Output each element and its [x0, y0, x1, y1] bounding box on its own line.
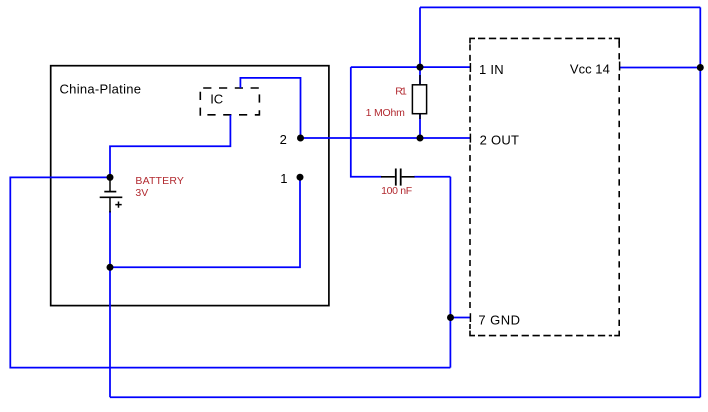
China-Platine module box — [51, 66, 329, 306]
svg-text:3V: 3V — [135, 187, 148, 199]
wire top rail — [420, 6, 700, 8]
node A R1 top junction — [417, 64, 424, 71]
svg-text:2: 2 — [280, 132, 287, 147]
svg-text:1 IN: 1 IN — [479, 62, 504, 77]
node 1 junction — [297, 174, 304, 181]
wire node A left and down to capacitor — [351, 67, 382, 177]
node R1 bottom junction — [417, 135, 424, 142]
svg-text:7 GND: 7 GND — [478, 313, 520, 328]
capacitor C1 — [381, 169, 415, 186]
wire capacitor right to GND column — [414, 176, 450, 178]
wire bottom rail — [110, 396, 700, 398]
pin tick 1 IN — [469, 63, 471, 72]
wire top rail drop to node A — [419, 7, 421, 67]
svg-text:IC: IC — [210, 91, 223, 106]
wire IC top to node 2 — [240, 78, 300, 138]
wire GND column down — [449, 177, 451, 368]
IC U2 (dashed box inside module) — [200, 88, 259, 116]
pin tick Vcc 14 — [619, 62, 621, 71]
wire right rail down — [699, 7, 701, 397]
wire branch to pin 1 — [110, 177, 300, 267]
wire battery plus down — [109, 211, 111, 397]
svg-text:100 nF: 100 nF — [381, 185, 412, 197]
svg-text:BATTERY: BATTERY — [135, 175, 184, 187]
node GND junction — [447, 314, 454, 321]
node Vcc right junction — [697, 64, 704, 71]
node 2 junction — [297, 135, 304, 142]
wire node 2 to 2 OUT — [301, 137, 471, 139]
node battery top junction — [107, 174, 114, 181]
svg-text:China-Platine: China-Platine — [60, 82, 142, 97]
wire battery minus loop left — [10, 177, 450, 367]
wire Vcc to right rail — [620, 67, 701, 69]
svg-text:2 OUT: 2 OUT — [480, 132, 519, 147]
svg-text:1: 1 — [280, 171, 287, 186]
svg-text:R1: R1 — [395, 85, 407, 97]
IC U1 14-pin (dashed box) — [470, 38, 619, 335]
wire IC bottom to battery node — [110, 115, 230, 178]
wire R1 column — [419, 67, 421, 138]
wire GND node to 7 GND pin — [450, 317, 470, 319]
svg-text:1 MOhm: 1 MOhm — [366, 107, 406, 119]
battery B1 — [100, 177, 123, 212]
pin tick 2 OUT — [469, 134, 471, 143]
node battery bottom junction — [107, 264, 114, 271]
resistor R1 — [412, 75, 426, 119]
wire node A to 1 IN — [351, 66, 471, 68]
pin tick 7 GND — [469, 313, 471, 322]
svg-text:Vcc 14: Vcc 14 — [570, 62, 610, 77]
